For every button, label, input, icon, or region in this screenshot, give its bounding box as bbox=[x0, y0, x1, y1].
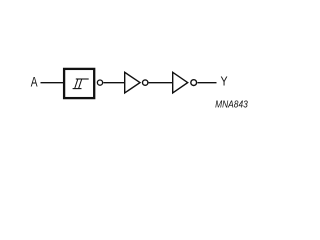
hysteresis symbol inside U1 bbox=[73, 79, 89, 89]
hysteresis rising edge bbox=[75, 79, 78, 89]
wire U2 bubble to inverter U3 bbox=[149, 82, 172, 84]
hysteresis falling edge bbox=[79, 79, 82, 89]
wire U3 bubble to output Y bbox=[198, 82, 217, 84]
wire U1 bubble to inverter U2 bbox=[103, 82, 124, 84]
inversion bubble on U3 output bbox=[191, 80, 197, 86]
hysteresis top rail bbox=[76, 78, 89, 80]
svg-text:A: A bbox=[31, 74, 38, 90]
inverter U3 (triangle) bbox=[173, 72, 188, 93]
wire from A to Schmitt-trigger box bbox=[41, 82, 65, 84]
inversion bubble on U2 output bbox=[143, 80, 148, 85]
hysteresis bottom rail bbox=[73, 88, 82, 90]
inversion bubble on U1 output bbox=[97, 80, 102, 85]
Schmitt trigger U1 (box) bbox=[64, 69, 94, 98]
inverter U2 (triangle) bbox=[125, 72, 140, 93]
svg-text:MNA843: MNA843 bbox=[215, 99, 248, 111]
svg-text:Y: Y bbox=[221, 74, 228, 89]
